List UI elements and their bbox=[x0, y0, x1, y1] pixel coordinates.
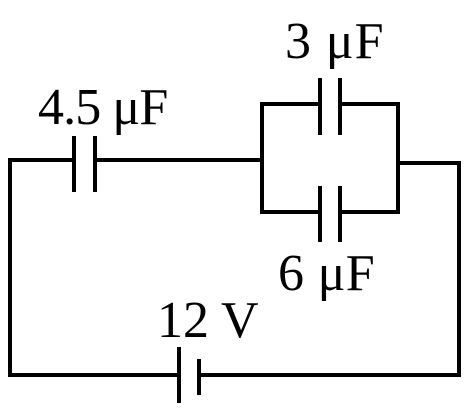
svg-text:3 μF: 3 μF bbox=[285, 13, 384, 70]
svg-text:4.5 μF: 4.5 μF bbox=[38, 79, 167, 136]
svg-text:12 V: 12 V bbox=[157, 292, 259, 349]
svg-text:6 μF: 6 μF bbox=[278, 245, 375, 302]
